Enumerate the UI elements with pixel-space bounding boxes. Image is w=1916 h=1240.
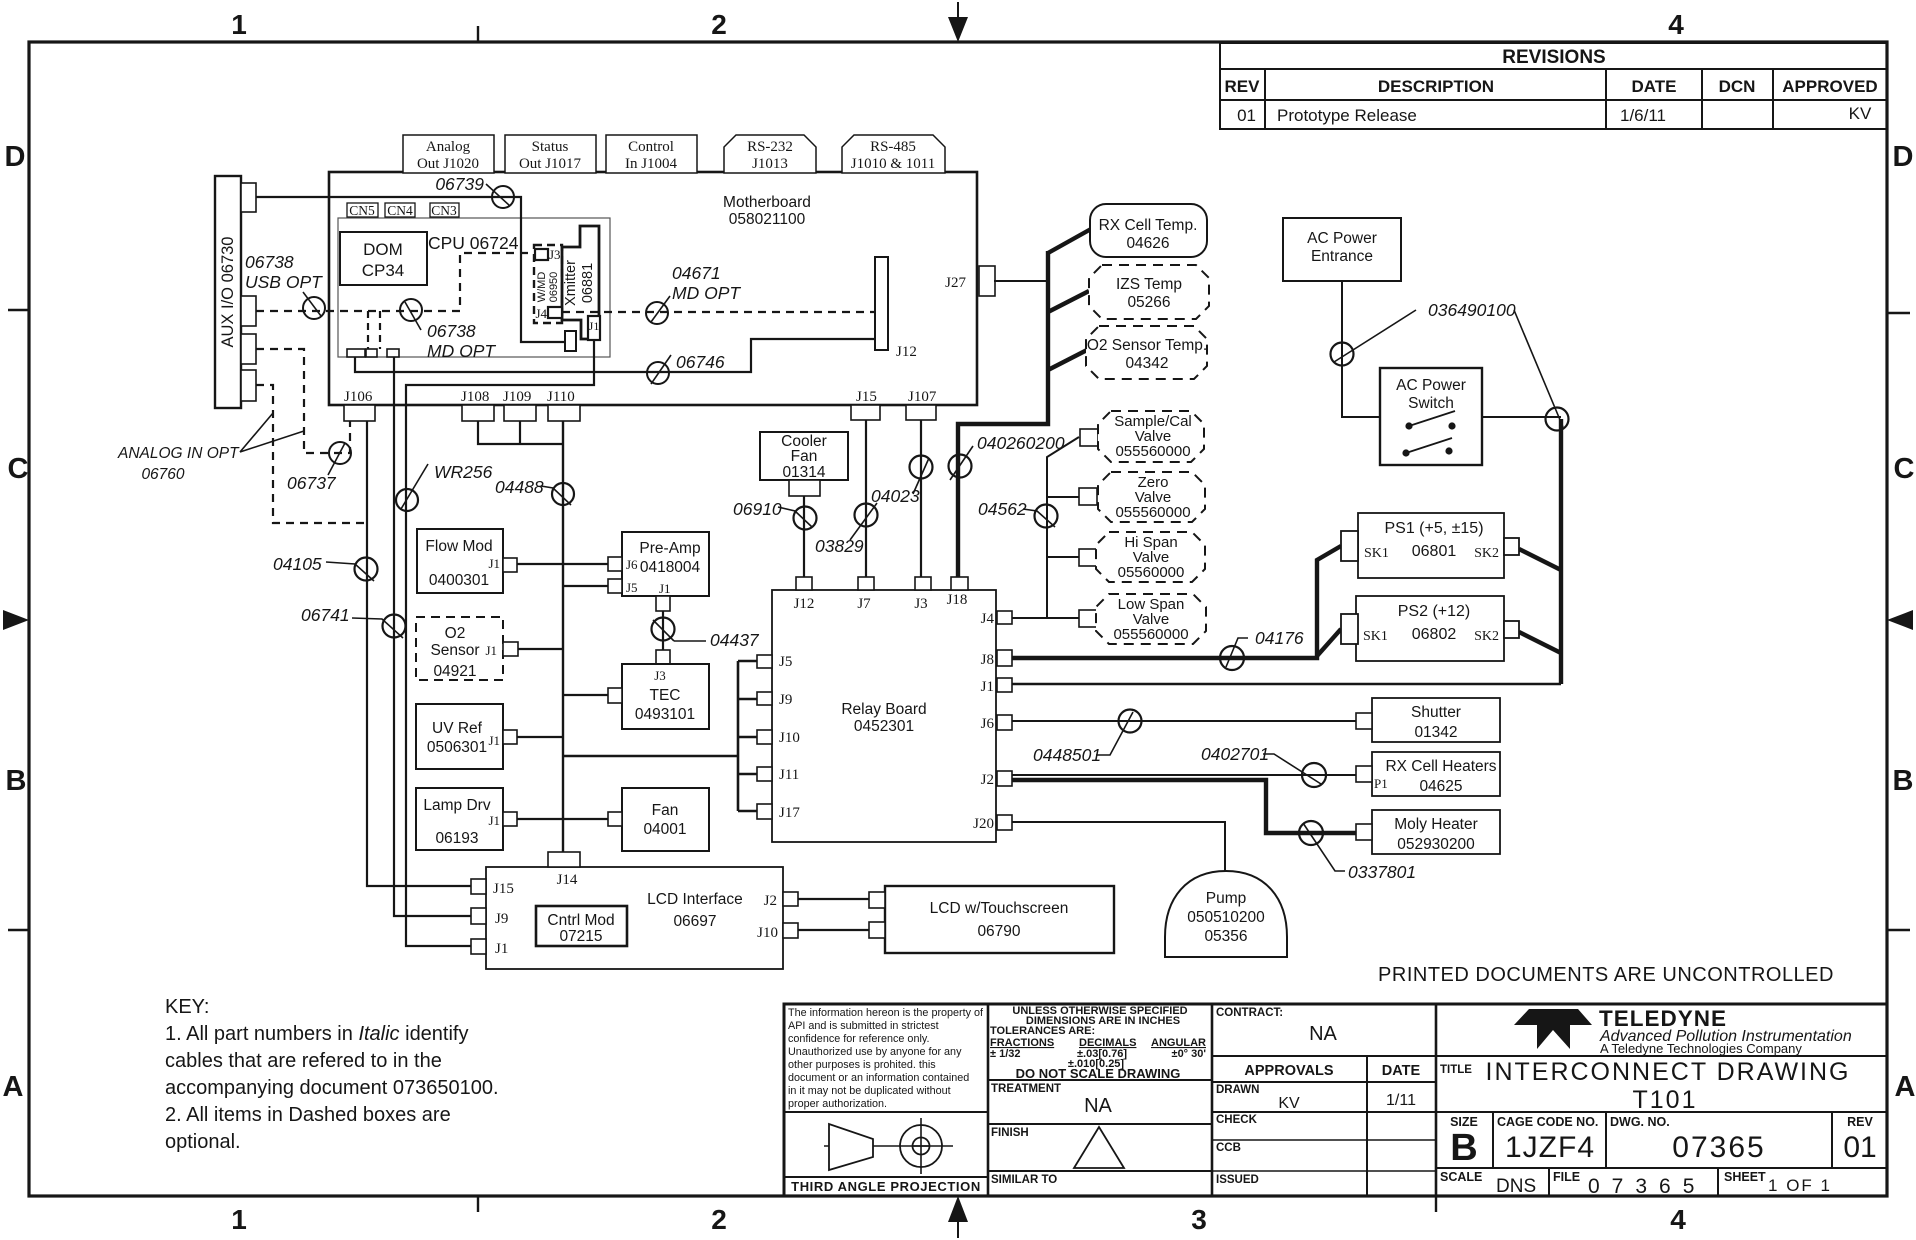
connector moly heater <box>1356 824 1372 840</box>
svg-text:1/11: 1/11 <box>1386 1092 1416 1109</box>
connector J1 PreAmp bottom <box>656 596 670 611</box>
wire bus to relay board bracket <box>563 755 738 758</box>
svg-text:A: A <box>1895 1071 1916 1103</box>
connector J3 on W/MD <box>535 247 561 262</box>
wire trunk to O2 Sensor Temp <box>1048 350 1087 370</box>
svg-text:D: D <box>1893 141 1914 173</box>
svg-text:0418004: 0418004 <box>640 559 701 576</box>
svg-text:J1: J1 <box>659 581 671 596</box>
svg-text:REV: REV <box>1225 77 1261 96</box>
LCD w/Touchscreen 06790 <box>885 886 1114 953</box>
svg-text:±0° 30': ±0° 30' <box>1172 1048 1207 1060</box>
svg-text:06802: 06802 <box>1412 626 1457 643</box>
svg-text:APPROVED: APPROVED <box>1782 77 1877 96</box>
svg-text:05356: 05356 <box>1204 928 1247 945</box>
Lamp Drv 06193 <box>416 788 503 850</box>
connector shutter <box>1356 713 1372 729</box>
svg-text:J1: J1 <box>485 643 497 658</box>
svg-text:J3: J3 <box>914 596 927 612</box>
svg-text:04562: 04562 <box>978 499 1027 519</box>
svg-text:036490100: 036490100 <box>1428 300 1516 320</box>
svg-text:PS1 (+5, ±15): PS1 (+5, ±15) <box>1384 520 1483 537</box>
svg-text:RX Cell Temp.: RX Cell Temp. <box>1099 217 1198 234</box>
zone arrow top <box>948 2 968 42</box>
wire relay J4 to Low Span valve <box>1012 617 1079 619</box>
zone tick bottom 3/4 <box>1435 1196 1437 1212</box>
wire relay J1 long to AC trunk <box>1012 683 1561 685</box>
svg-text:Control: Control <box>628 139 674 155</box>
wire J8 corner to PS2 SK1 <box>1317 629 1341 656</box>
connector touchscreen 1 <box>869 892 885 908</box>
relay connector J2 right <box>981 771 1012 788</box>
svg-text:WR256: WR256 <box>434 462 493 482</box>
svg-text:C: C <box>8 453 29 485</box>
wire relay J2 thick to moly heater <box>1012 780 1356 833</box>
wire J27 to temp trunk <box>994 280 1048 282</box>
svg-text:DATE: DATE <box>1631 77 1676 96</box>
treatment box <box>988 1080 1212 1117</box>
Zero Valve 055560000 optional <box>1098 472 1205 522</box>
svg-text:REV: REV <box>1847 1115 1873 1129</box>
svg-text:J108: J108 <box>461 389 489 405</box>
AUX connector tab 4 <box>241 370 256 401</box>
svg-text:ANALOG IN OPT: ANALOG IN OPT <box>117 445 240 462</box>
svg-text:J6: J6 <box>626 557 638 572</box>
connector SK2 PS1 <box>1504 538 1519 555</box>
svg-text:J1: J1 <box>488 733 500 748</box>
svg-text:04001: 04001 <box>643 821 686 838</box>
svg-text:FINISH: FINISH <box>991 1127 1029 1139</box>
svg-text:Pump: Pump <box>1206 890 1247 907</box>
zone tick right upper <box>1887 312 1910 314</box>
bracket stub J9 <box>738 698 757 701</box>
connector J1 UV Ref <box>503 730 517 744</box>
svg-text:Cntrl Mod: Cntrl Mod <box>547 912 614 929</box>
wire FlowMod J1 to PreAmp J6 <box>517 563 608 565</box>
relay connector J8 right <box>981 650 1012 668</box>
svg-text:A: A <box>3 1071 24 1103</box>
cable marker 06741 <box>301 605 406 638</box>
svg-text:J9: J9 <box>495 911 508 927</box>
RX Cell Heaters 04625 <box>1372 752 1500 796</box>
svg-text:04671: 04671 <box>672 263 721 283</box>
svg-text:Lamp Drv: Lamp Drv <box>423 797 490 814</box>
TEC 0493101 <box>622 664 709 729</box>
dashed wire 04671 MD OPT: J4 to J12 <box>562 311 875 313</box>
cable marker 04105 <box>273 554 378 581</box>
motherboard bottom connector J110 <box>547 389 580 421</box>
relay board 0452301 <box>772 590 996 842</box>
cable marker 06746 <box>647 352 725 384</box>
svg-text:06881: 06881 <box>580 263 596 303</box>
svg-text:052930200: 052930200 <box>1397 836 1475 853</box>
svg-text:04921: 04921 <box>433 663 476 680</box>
cable marker 06738 USB OPT <box>245 252 325 319</box>
svg-text:J1: J1 <box>488 813 500 828</box>
connector J1 Lamp Drv <box>503 812 517 826</box>
wire J108/J109/J110 merge into module bus <box>478 421 563 852</box>
svg-text:07215: 07215 <box>559 928 602 945</box>
Pre-Amp 0418004 <box>622 532 709 596</box>
check row <box>1212 1114 1436 1140</box>
svg-text:INTERCONNECT DRAWING: INTERCONNECT DRAWING <box>1486 1058 1851 1086</box>
svg-text:AC Power: AC Power <box>1307 230 1377 247</box>
W/MD 06950 option module (dashed) <box>534 245 562 323</box>
relay connector J6 right <box>981 715 1012 732</box>
svg-text:01: 01 <box>1237 106 1256 125</box>
svg-text:J7: J7 <box>857 596 871 612</box>
connector J1 O2 sensor <box>503 642 518 656</box>
connector SK2 PS2 <box>1504 621 1519 638</box>
Cntrl Mod 07215 <box>536 906 627 946</box>
connector P1 Low Span <box>1079 610 1114 628</box>
svg-text:06910: 06910 <box>733 499 782 519</box>
dashed stub to CPU connector a <box>367 311 369 349</box>
dashed stub to CPU connector b <box>379 311 381 349</box>
cable marker 0337801 <box>1299 821 1416 882</box>
svg-text:J3: J3 <box>654 668 666 683</box>
wire relay J8 to power supplies (thick) <box>1012 546 1341 658</box>
svg-text:A Teledyne Technologies Compan: A Teledyne Technologies Company <box>1600 1041 1802 1056</box>
Moly Heater 052930200 <box>1372 810 1500 854</box>
wire UV J1 to bus <box>517 736 563 738</box>
svg-text:2: 2 <box>711 1204 727 1235</box>
connector TEC left <box>608 688 622 703</box>
svg-text:document or an information con: document or an information contained <box>788 1072 969 1084</box>
cable marker on switch output <box>1514 310 1569 431</box>
svg-text:2. All items in Dashed boxes a: 2. All items in Dashed boxes are <box>165 1104 451 1126</box>
svg-text:KV: KV <box>1278 1095 1300 1112</box>
svg-text:J12: J12 <box>794 596 815 612</box>
svg-text:J20: J20 <box>973 816 994 832</box>
CPU bottom connector 2 <box>366 349 377 357</box>
label ANALOG IN OPT 06760 <box>117 413 304 483</box>
connector P1 Hi Span <box>1079 549 1114 567</box>
zone arrow left <box>3 610 29 630</box>
connector J10 LCD right <box>783 923 798 938</box>
svg-text:Unauthorized use by anyone for: Unauthorized use by anyone for any <box>788 1046 962 1058</box>
svg-text:DNS: DNS <box>1496 1176 1536 1197</box>
wire PS1 SK2 to trunk <box>1519 549 1561 570</box>
valve trunk <box>1047 437 1079 618</box>
svg-text:SHEET: SHEET <box>1724 1170 1766 1184</box>
svg-text:± 1/32: ± 1/32 <box>990 1048 1021 1060</box>
zone tick bottom 1/2 <box>477 1196 479 1212</box>
svg-text:CPU 06724: CPU 06724 <box>428 233 519 253</box>
svg-text:TOLERANCES ARE:: TOLERANCES ARE: <box>990 1025 1095 1037</box>
svg-text:Pre-Amp: Pre-Amp <box>639 540 700 557</box>
svg-text:C: C <box>1894 453 1915 485</box>
svg-text:J27: J27 <box>945 275 966 291</box>
svg-text:UV Ref: UV Ref <box>432 720 483 737</box>
Shutter 01342 <box>1372 698 1500 742</box>
cable marker 04488 <box>495 477 574 505</box>
relay connector J7 top <box>857 577 874 612</box>
connector Fan left <box>608 812 622 826</box>
svg-text:J4: J4 <box>535 306 547 321</box>
svg-text:0400301: 0400301 <box>429 572 489 589</box>
svg-text:J9: J9 <box>779 692 792 708</box>
svg-text:04105: 04105 <box>273 554 322 574</box>
svg-text:J1: J1 <box>495 941 508 957</box>
svg-text:ISSUED: ISSUED <box>1216 1174 1259 1186</box>
svg-text:SIMILAR TO: SIMILAR TO <box>991 1174 1057 1186</box>
svg-text:confidence for reference only.: confidence for reference only. <box>788 1033 929 1045</box>
wire TEC to bus <box>563 694 608 696</box>
wire J107 to relay J3 <box>920 420 922 577</box>
wire LampDrv J1 to Fan <box>517 818 608 820</box>
svg-text:AUX I/O 06730: AUX I/O 06730 <box>219 237 237 348</box>
svg-text:06801: 06801 <box>1412 543 1457 560</box>
svg-text:06741: 06741 <box>301 605 350 625</box>
zone arrow bottom <box>948 1196 968 1238</box>
connector J3 TEC top <box>656 650 670 664</box>
contract box <box>1216 1007 1338 1045</box>
header RS-232 J1013 <box>724 135 816 173</box>
zone numbers bottom <box>231 1204 1686 1235</box>
pump 050510200 05356 <box>1165 871 1287 957</box>
note printed documents <box>1378 964 1834 986</box>
size cage dwg rev row <box>1436 1112 1887 1169</box>
cable marker 04437 <box>652 618 760 651</box>
connector J1 on Xmitter <box>588 316 600 340</box>
cable marker 06910 <box>733 499 817 530</box>
svg-text:CHECK: CHECK <box>1216 1114 1258 1126</box>
svg-text:Out J1017: Out J1017 <box>519 156 582 172</box>
svg-text:DRAWN: DRAWN <box>1216 1084 1259 1096</box>
svg-text:optional.: optional. <box>165 1131 241 1153</box>
Hi Span Valve 05560000 optional <box>1096 532 1205 582</box>
dashed wire USB option from AUX tab2 through CPU to J3 <box>256 253 534 311</box>
svg-text:DCN: DCN <box>1719 77 1756 96</box>
svg-text:05266: 05266 <box>1127 294 1170 311</box>
svg-text:CCB: CCB <box>1216 1142 1241 1154</box>
svg-text:J110: J110 <box>547 389 575 405</box>
svg-text:J2: J2 <box>981 772 994 788</box>
cable marker 0402701 <box>1201 744 1326 787</box>
svg-text:RX Cell Heaters: RX Cell Heaters <box>1385 758 1496 775</box>
svg-text:J3: J3 <box>549 247 561 262</box>
svg-text:SK1: SK1 <box>1363 629 1388 644</box>
Sample/Cal Valve 055560000 optional <box>1098 411 1204 462</box>
AC trunk down right side <box>1559 419 1563 684</box>
svg-text:W/MD: W/MD <box>536 272 548 303</box>
wire xmitter J1 down-left-down <box>406 340 594 405</box>
xmitter connector stub below <box>565 331 576 351</box>
svg-text:J5: J5 <box>626 580 638 595</box>
title block frame <box>784 1004 1887 1196</box>
bracket stub J17 <box>738 810 757 813</box>
svg-text:03829: 03829 <box>815 536 864 556</box>
wire entrance to switch <box>1342 281 1380 417</box>
svg-text:05560000: 05560000 <box>1118 564 1185 581</box>
connector J1 LCD left <box>471 939 486 954</box>
svg-text:06950: 06950 <box>548 272 560 303</box>
RX Cell Temp 04626 <box>1090 204 1207 257</box>
svg-text:J1010 & 1011: J1010 & 1011 <box>851 156 935 172</box>
connector J1 Flow Mod <box>503 558 517 572</box>
cable marker 06737 <box>287 442 351 493</box>
svg-text:055560000: 055560000 <box>1115 504 1190 521</box>
svg-text:06738: 06738 <box>245 252 294 272</box>
wire cooler fan to relay J12 <box>803 496 805 577</box>
svg-text:06746: 06746 <box>676 352 725 372</box>
svg-text:T101: T101 <box>1633 1086 1698 1114</box>
svg-text:B: B <box>1450 1127 1477 1169</box>
AC Power Entrance <box>1283 218 1401 281</box>
AUX I/O 06730 board <box>215 176 241 408</box>
cable marker WR256 <box>396 462 493 511</box>
svg-text:J11: J11 <box>779 767 799 783</box>
svg-text:06738: 06738 <box>427 321 476 341</box>
svg-text:01342: 01342 <box>1414 724 1457 741</box>
IZS Temp 05266 optional <box>1089 265 1209 319</box>
svg-text:J1013: J1013 <box>752 156 788 172</box>
svg-text:MD OPT: MD OPT <box>672 283 741 303</box>
svg-text:1: 1 <box>231 1204 247 1235</box>
svg-text:Xmitter: Xmitter <box>563 260 579 306</box>
CPU bottom connector 3 <box>387 349 399 357</box>
wire PreAmp J5 to bus <box>563 585 608 587</box>
cable marker 04023 <box>871 456 933 507</box>
svg-text:04626: 04626 <box>1126 235 1169 252</box>
svg-text:Analog: Analog <box>426 139 471 155</box>
relay connector J11 left <box>757 767 799 783</box>
svg-text:PS2 (+12): PS2 (+12) <box>1398 603 1470 620</box>
svg-text:J1: J1 <box>488 556 500 571</box>
svg-text:SK1: SK1 <box>1364 546 1389 561</box>
PS1 06801 <box>1358 513 1504 578</box>
wire CPU conn3 down <box>393 357 395 405</box>
svg-text:J2: J2 <box>764 893 777 909</box>
wire LCD J10 to touchscreen <box>798 929 869 931</box>
wire PreAmp J1 to TEC J3 <box>662 611 664 650</box>
PS2 06802 <box>1356 596 1504 661</box>
wire relay J2 to RX cell heaters <box>1012 774 1356 776</box>
svg-text:DWG. NO.: DWG. NO. <box>1610 1115 1670 1129</box>
temp sensor trunk (thick) <box>958 251 1048 577</box>
svg-text:040260200: 040260200 <box>977 433 1065 453</box>
finish box <box>988 1124 1212 1168</box>
cable marker 06739 <box>435 174 514 208</box>
DOM CP34 <box>340 232 427 285</box>
svg-text:Switch: Switch <box>1408 395 1454 412</box>
svg-text:07365: 07365 <box>1672 1131 1765 1164</box>
zone tick right lower <box>1887 929 1910 931</box>
svg-text:Relay Board: Relay Board <box>841 701 926 718</box>
svg-text:CN5: CN5 <box>349 203 375 218</box>
cable marker 04671 MD OPT <box>646 263 741 324</box>
AUX connector tab 3 <box>241 334 256 364</box>
wire trunk to RX Cell Temp <box>1048 229 1091 253</box>
svg-text:CN3: CN3 <box>431 203 457 218</box>
svg-text:AC Power: AC Power <box>1396 377 1466 394</box>
svg-text:J106: J106 <box>344 389 373 405</box>
svg-text:O2 Sensor Temp.: O2 Sensor Temp. <box>1087 337 1207 354</box>
svg-text:3: 3 <box>1191 1204 1207 1235</box>
svg-text:J12: J12 <box>896 344 917 360</box>
svg-text:Fan: Fan <box>652 802 679 819</box>
connector J4 on W/MD <box>535 306 562 321</box>
wire J106 down to LCD J15 <box>367 421 471 886</box>
cable marker 04176 <box>1220 628 1304 670</box>
svg-text:Motherboard: Motherboard <box>723 194 811 211</box>
connector J5 PreAmp <box>608 579 622 593</box>
svg-text:RS-485: RS-485 <box>870 139 916 155</box>
dashed wire AUX tab3 to 06737 to J106 <box>256 349 350 453</box>
approvals header <box>1212 1056 1436 1196</box>
svg-text:01: 01 <box>1843 1131 1876 1164</box>
connector CN4 <box>385 203 415 218</box>
wire O2 J1 to bus <box>518 648 563 650</box>
svg-text:Shutter: Shutter <box>1411 704 1461 721</box>
wire trunk to IZS Temp <box>1048 291 1089 312</box>
wire switch to right trunk <box>1482 416 1561 418</box>
svg-text:0493101: 0493101 <box>635 706 695 723</box>
svg-text:TREATMENT: TREATMENT <box>991 1083 1061 1095</box>
svg-text:DATE: DATE <box>1382 1063 1421 1079</box>
bracket stub J11 <box>738 773 757 776</box>
wire xmitter line down to LCD J1 <box>406 405 471 946</box>
svg-text:J10: J10 <box>779 730 800 746</box>
svg-text:J107: J107 <box>908 389 937 405</box>
header RS-485 J1010 and 1011 <box>842 135 945 173</box>
wire AUX tab1 to motherboard <box>256 196 329 198</box>
svg-text:CP34: CP34 <box>362 261 405 280</box>
svg-text:proper authorization.: proper authorization. <box>788 1098 887 1110</box>
svg-text:01314: 01314 <box>782 464 825 481</box>
connector CN3 <box>430 203 459 218</box>
svg-text:J15: J15 <box>493 881 514 897</box>
CPU bottom connector 1 <box>347 349 365 357</box>
svg-text:04023: 04023 <box>871 486 920 506</box>
wire trunk to Hi Span valve <box>1047 556 1079 558</box>
cable marker 03829 <box>815 503 878 556</box>
connector J6 PreAmp <box>608 557 622 571</box>
connector SK1 PS2 <box>1341 614 1358 644</box>
svg-text:04342: 04342 <box>1125 355 1168 372</box>
drawn row <box>1212 1084 1436 1112</box>
connector P1 Sample/Cal <box>1080 429 1115 447</box>
svg-text:SK2: SK2 <box>1474 546 1499 561</box>
svg-text:DESCRIPTION: DESCRIPTION <box>1378 77 1494 96</box>
svg-text:accompanying document 07365010: accompanying document 073650100. <box>165 1077 499 1099</box>
Fan 04001 <box>622 788 709 851</box>
zone numbers top <box>231 9 1684 40</box>
svg-text:TITLE: TITLE <box>1440 1064 1472 1076</box>
svg-text:Sensor: Sensor <box>430 642 479 659</box>
motherboard bottom connector J15 <box>851 389 880 420</box>
svg-text:4: 4 <box>1670 1204 1686 1235</box>
Cooler Fan connector <box>789 480 820 496</box>
teledyne logo <box>1514 1006 1852 1056</box>
svg-text:2: 2 <box>711 9 727 40</box>
svg-text:CAGE CODE NO.: CAGE CODE NO. <box>1497 1115 1598 1129</box>
cable marker 040260200 <box>949 433 1065 480</box>
relay connector J17 left <box>757 804 800 821</box>
header Status Out J1017 <box>505 135 596 173</box>
relay connector J1 right <box>981 678 1012 695</box>
wire CPU conn3 down to LCD J9 <box>394 405 471 916</box>
svg-text:LCD w/Touchscreen: LCD w/Touchscreen <box>930 900 1069 917</box>
motherboard bottom connector J106 <box>344 389 375 421</box>
title row <box>1436 1056 1887 1114</box>
relay connector J5 left <box>757 654 792 670</box>
svg-text:RS-232: RS-232 <box>747 139 793 155</box>
motherboard bottom connector J107 <box>906 389 937 420</box>
svg-text:NA: NA <box>1084 1095 1112 1117</box>
tolerances box <box>990 1005 1206 1081</box>
